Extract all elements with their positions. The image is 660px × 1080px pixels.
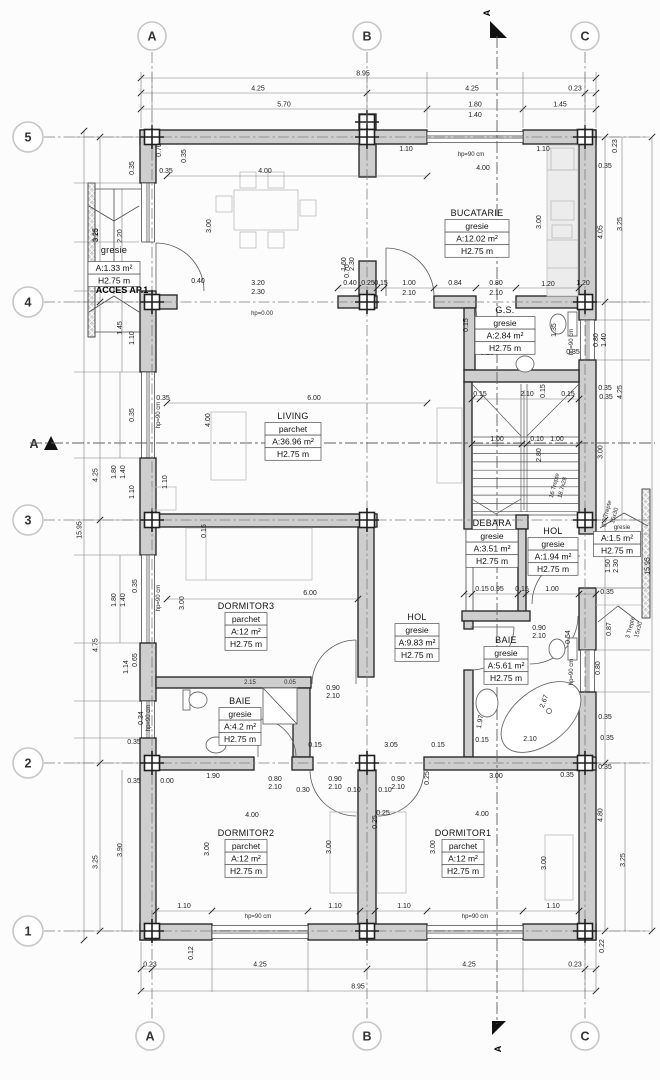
axis 5 horizontal — [44, 136, 648, 138]
wall stub axis B top — [359, 144, 376, 177]
wardrobe dorm1 — [545, 835, 573, 900]
svg-text:0.10: 0.10 — [347, 787, 361, 794]
window left 2 (hp=90) — [142, 372, 155, 458]
svg-text:4.25: 4.25 — [462, 962, 476, 969]
dim stair top row — [472, 398, 579, 400]
svg-text:0.90: 0.90 — [326, 685, 340, 692]
svg-text:1.00: 1.00 — [550, 436, 564, 443]
svg-text:0.05: 0.05 — [284, 680, 296, 686]
column A1 — [145, 924, 160, 939]
svg-text:4.25: 4.25 — [617, 385, 624, 399]
svg-text:1.00: 1.00 — [490, 436, 504, 443]
svg-text:1.80: 1.80 — [111, 465, 118, 479]
grid bubble A bottom — [136, 1022, 164, 1050]
dining chair — [240, 232, 256, 248]
svg-text:0.35: 0.35 — [129, 161, 136, 175]
grid bubble B top — [353, 22, 381, 50]
grid bubble 2 — [13, 748, 43, 778]
wall B dorm3/hol — [358, 527, 374, 677]
dim debara row — [464, 593, 596, 595]
wall axis3 living/dorm3 — [156, 514, 377, 527]
door entrance AP.1 — [155, 243, 157, 291]
svg-text:H2.75 m: H2.75 m — [489, 343, 521, 353]
svg-text:8.95: 8.95 — [351, 984, 365, 991]
svg-text:0.90: 0.90 — [532, 625, 546, 632]
svg-text:0.80: 0.80 — [593, 333, 600, 347]
svg-text:A:12.02 m²: A:12.02 m² — [456, 234, 498, 244]
svg-text:4.25: 4.25 — [251, 86, 265, 93]
svg-text:2: 2 — [25, 757, 32, 771]
svg-text:4.25: 4.25 — [93, 468, 100, 482]
svg-text:1.40: 1.40 — [468, 112, 482, 119]
door dormitor1 — [378, 770, 424, 816]
door baie1 from dorm2 — [257, 719, 259, 757]
bed dorm1 — [377, 812, 406, 893]
tv unit living — [437, 408, 462, 483]
svg-text:A:36.96 m²: A:36.96 m² — [272, 437, 314, 447]
dim bottom 8.95 — [141, 990, 596, 992]
wall right segment 1 — [579, 130, 596, 320]
column B5a — [360, 115, 375, 130]
svg-text:4: 4 — [25, 296, 32, 310]
column B4 — [360, 295, 375, 310]
landing chevron bottom — [598, 606, 618, 622]
dining chair — [300, 200, 316, 216]
svg-text:3.00: 3.00 — [598, 445, 605, 459]
column B1 — [360, 924, 375, 939]
svg-text:BAIE: BAIE — [495, 635, 517, 645]
svg-text:0.40: 0.40 — [191, 278, 205, 285]
svg-text:0.15: 0.15 — [561, 391, 575, 398]
baie1 wc — [183, 690, 190, 710]
svg-text:0.80: 0.80 — [268, 776, 282, 783]
svg-text:A:9.83 m²: A:9.83 m² — [399, 638, 436, 648]
baie2 sink — [476, 689, 498, 717]
svg-text:1.10: 1.10 — [129, 485, 136, 499]
dim top 5.70 row — [141, 108, 596, 110]
wall axis4 GS right — [516, 296, 579, 308]
svg-text:BUCATARIE: BUCATARIE — [451, 208, 504, 218]
dim bottom windows row — [156, 910, 579, 912]
svg-text:0.15: 0.15 — [540, 384, 547, 398]
svg-text:0.35: 0.35 — [599, 394, 613, 401]
svg-text:4.75: 4.75 — [93, 638, 100, 652]
column B2 — [360, 756, 375, 771]
wall top right segment — [523, 130, 596, 144]
svg-text:15.95: 15.95 — [645, 557, 652, 575]
svg-text:2.10: 2.10 — [328, 784, 342, 791]
svg-text:1.90: 1.90 — [206, 773, 220, 780]
baie2 tub — [488, 667, 594, 766]
svg-text:HOL: HOL — [543, 526, 562, 536]
svg-text:15.95: 15.95 — [77, 521, 84, 539]
svg-text:1.35: 1.35 — [551, 323, 558, 337]
svg-text:A:4.2 m²: A:4.2 m² — [224, 722, 256, 732]
column C4 — [578, 295, 593, 310]
wall axis2 right — [424, 757, 596, 770]
window left 1 — [142, 183, 155, 242]
svg-text:A: A — [493, 1045, 503, 1052]
svg-text:0.15: 0.15 — [473, 391, 487, 398]
wall debara/hol — [518, 529, 526, 617]
svg-text:0.35: 0.35 — [159, 168, 173, 175]
wall GS left — [464, 308, 475, 370]
svg-text:1.50: 1.50 — [605, 559, 612, 573]
svg-text:0.35: 0.35 — [181, 149, 188, 163]
svg-text:3.25: 3.25 — [620, 853, 627, 867]
svg-text:0.80: 0.80 — [489, 280, 503, 287]
GS sink — [516, 356, 534, 372]
svg-text:H2.75 m: H2.75 m — [537, 564, 569, 574]
wall axis2 left — [156, 757, 254, 770]
wall left segment 1 — [140, 130, 156, 183]
dim top 8.95 — [141, 77, 596, 79]
dim stair treads row — [472, 443, 579, 445]
svg-text:A:1.33 m²: A:1.33 m² — [96, 263, 133, 273]
door exterior rear — [532, 556, 580, 604]
wall baie1 top — [156, 677, 311, 688]
svg-text:LIVING: LIVING — [277, 411, 308, 421]
svg-text:DORMITOR1: DORMITOR1 — [435, 828, 492, 838]
svg-text:1.80: 1.80 — [468, 102, 482, 109]
porch outline — [95, 188, 141, 190]
window left 3 (hp=90) — [142, 555, 155, 643]
svg-text:0.23: 0.23 — [143, 962, 157, 969]
landing lines — [596, 533, 642, 535]
svg-text:parchet: parchet — [279, 424, 308, 434]
svg-text:B: B — [362, 30, 371, 44]
axis B vertical — [366, 52, 368, 1019]
svg-text:A:2.84 m²: A:2.84 m² — [487, 331, 524, 341]
svg-text:4.00: 4.00 — [475, 811, 489, 818]
svg-text:hp=0.00: hp=0.00 — [251, 311, 274, 317]
svg-text:3: 3 — [25, 514, 32, 528]
witness lines left — [74, 136, 139, 138]
svg-text:4.00: 4.00 — [258, 168, 272, 175]
svg-text:0.35: 0.35 — [129, 408, 136, 422]
svg-text:C: C — [580, 30, 589, 44]
baie1 shower — [263, 688, 297, 724]
svg-text:3.00: 3.00 — [206, 219, 213, 233]
svg-text:0.35: 0.35 — [598, 385, 612, 392]
wall baie2 top — [462, 611, 530, 621]
svg-text:3.25: 3.25 — [93, 228, 100, 242]
svg-text:hp=90 cm: hp=90 cm — [569, 659, 575, 686]
svg-text:0.15: 0.15 — [463, 318, 470, 332]
svg-text:3.00: 3.00 — [326, 840, 333, 854]
svg-text:0.35: 0.35 — [600, 735, 614, 742]
svg-text:2.10: 2.10 — [520, 391, 534, 398]
wall left segment 5 — [140, 738, 156, 940]
grid bubble A top — [138, 22, 166, 50]
svg-text:0.84: 0.84 — [448, 280, 462, 287]
svg-text:gresie: gresie — [465, 221, 488, 231]
svg-text:0.10: 0.10 — [378, 787, 392, 794]
column C5 — [578, 130, 593, 145]
svg-text:A: A — [147, 30, 156, 44]
svg-text:1.10: 1.10 — [162, 475, 169, 489]
stair treads — [472, 436, 579, 438]
svg-text:BAIE: BAIE — [229, 696, 251, 706]
column C2 — [578, 756, 593, 771]
svg-text:2.10: 2.10 — [489, 290, 503, 297]
svg-text:0.10: 0.10 — [530, 436, 544, 443]
svg-text:8.95: 8.95 — [356, 71, 370, 78]
wall left segment 2 — [140, 291, 156, 372]
svg-text:H2.75 m: H2.75 m — [447, 866, 479, 876]
witness lines right — [597, 136, 650, 138]
svg-text:C: C — [580, 1030, 589, 1044]
svg-text:0.15: 0.15 — [201, 524, 208, 538]
svg-text:0.15: 0.15 — [475, 586, 489, 593]
svg-text:1.20: 1.20 — [576, 280, 590, 287]
svg-text:H2.75 m: H2.75 m — [277, 449, 309, 459]
svg-text:3.05: 3.05 — [384, 742, 398, 749]
svg-text:3.00: 3.00 — [430, 840, 437, 854]
svg-text:B: B — [362, 1030, 371, 1044]
column C1 — [578, 924, 593, 939]
bed dorm2 — [330, 812, 357, 893]
wall right segment 2 — [579, 360, 596, 534]
column C3 — [578, 513, 593, 528]
svg-text:H2.75 m: H2.75 m — [461, 246, 493, 256]
porch hatched edge — [88, 183, 95, 337]
svg-text:DORMITOR3: DORMITOR3 — [218, 601, 275, 611]
svg-text:1.40: 1.40 — [601, 333, 608, 347]
svg-text:3.00: 3.00 — [541, 856, 548, 870]
window bottom left (hp=90) — [212, 926, 308, 939]
svg-text:1.10: 1.10 — [536, 146, 550, 153]
svg-text:4.25: 4.25 — [253, 962, 267, 969]
svg-text:2.20: 2.20 — [117, 229, 124, 243]
svg-text:H2.75 m: H2.75 m — [230, 639, 262, 649]
section marker A bottom — [492, 1021, 506, 1035]
svg-text:1.80: 1.80 — [111, 593, 118, 607]
svg-text:G.S.: G.S. — [495, 305, 514, 315]
svg-text:0.00: 0.00 — [160, 778, 174, 785]
wall axis4 left of B — [338, 296, 377, 308]
svg-text:0.80: 0.80 — [595, 661, 602, 675]
wall bottom segment 2 — [308, 924, 427, 940]
dim top 4.25 row — [141, 92, 596, 94]
svg-text:0.15: 0.15 — [431, 742, 445, 749]
axis 3 horizontal — [44, 519, 648, 521]
svg-text:hp=90 cm: hp=90 cm — [245, 914, 272, 920]
dim left overall — [83, 131, 85, 940]
svg-text:4.00: 4.00 — [245, 812, 259, 819]
axis C vertical — [584, 52, 586, 1019]
column A2 — [145, 756, 160, 771]
svg-text:H2.75 m: H2.75 m — [224, 734, 256, 744]
svg-text:1.14: 1.14 — [123, 660, 130, 674]
svg-text:0.87: 0.87 — [606, 622, 613, 636]
svg-text:A:3.51 m²: A:3.51 m² — [474, 544, 511, 554]
axis 2 horizontal — [44, 762, 648, 764]
dim dining 4.00 — [167, 175, 427, 177]
svg-text:DORMITOR2: DORMITOR2 — [218, 828, 275, 838]
svg-text:A:12 m²: A:12 m² — [448, 854, 478, 864]
svg-text:A:12 m²: A:12 m² — [231, 627, 261, 637]
svg-text:1.10: 1.10 — [546, 903, 560, 910]
wall top left segment — [140, 130, 427, 144]
svg-text:3.00: 3.00 — [489, 773, 503, 780]
grid bubble 4 — [13, 287, 43, 317]
margin dim lines left — [121, 189, 123, 372]
wall axis4 kitchen/GS — [434, 296, 476, 308]
grid bubble 5 — [13, 122, 43, 152]
witness lines bottom — [140, 942, 142, 992]
svg-text:1.10: 1.10 — [328, 903, 342, 910]
wall bottom segment 3 — [523, 924, 596, 940]
svg-text:0.22: 0.22 — [599, 939, 606, 953]
door GS — [476, 308, 516, 348]
svg-text:3.20: 3.20 — [251, 280, 265, 287]
svg-text:0.90: 0.90 — [391, 776, 405, 783]
svg-text:HOL: HOL — [407, 612, 426, 622]
kitchen appliances — [551, 148, 574, 170]
window right 1 (hp=90) — [581, 320, 595, 360]
svg-text:H2.75 m: H2.75 m — [601, 546, 633, 556]
wall GS / stair separation — [464, 370, 579, 382]
svg-text:0.95: 0.95 — [490, 586, 504, 593]
grid bubble C bottom — [571, 1022, 599, 1050]
door dormitor3 — [355, 640, 357, 684]
svg-text:4.00: 4.00 — [476, 165, 490, 172]
section line A-A vertical — [496, 36, 498, 1024]
sofa living — [211, 412, 246, 480]
svg-text:A:5.61 m²: A:5.61 m² — [488, 661, 525, 671]
svg-text:2.10: 2.10 — [402, 290, 416, 297]
svg-text:0.70: 0.70 — [344, 264, 351, 278]
svg-text:1.20: 1.20 — [541, 281, 555, 288]
svg-text:0.35: 0.35 — [598, 163, 612, 170]
axis 1 horizontal — [44, 930, 648, 932]
svg-text:0.25: 0.25 — [361, 280, 375, 287]
dim left col outer — [99, 137, 101, 931]
dim right overall — [651, 137, 653, 931]
svg-text:2.10: 2.10 — [268, 784, 282, 791]
landing chevron top — [600, 513, 624, 528]
svg-text:3.00: 3.00 — [204, 842, 211, 856]
svg-text:6.00: 6.00 — [303, 590, 317, 597]
svg-text:2.80: 2.80 — [536, 448, 543, 462]
svg-text:2.15: 2.15 — [244, 680, 256, 686]
window top (hp=90) — [427, 132, 523, 143]
svg-text:1.40: 1.40 — [120, 593, 127, 607]
svg-text:6.00: 6.00 — [307, 395, 321, 402]
svg-text:4.05: 4.05 — [598, 225, 605, 239]
dining chair — [268, 232, 284, 248]
svg-text:gresie: gresie — [614, 525, 631, 531]
svg-text:0.35: 0.35 — [600, 589, 614, 596]
svg-text:0.23: 0.23 — [612, 139, 619, 153]
bed dorm3 — [186, 528, 312, 580]
svg-text:3.25: 3.25 — [93, 855, 100, 869]
axis A vertical — [151, 52, 153, 1019]
svg-text:0.65: 0.65 — [132, 653, 139, 667]
margin dim lines right — [621, 137, 623, 520]
svg-text:parchet: parchet — [232, 841, 261, 851]
svg-text:A:1.94 m²: A:1.94 m² — [535, 552, 572, 562]
svg-text:1.45: 1.45 — [117, 321, 124, 335]
stair lower chevron — [472, 499, 496, 514]
stair upper diagonals — [472, 384, 521, 436]
section line A-A horizontal — [30, 442, 655, 444]
wall left segment 3 — [140, 458, 156, 555]
wall baie1 right — [293, 688, 310, 757]
svg-text:2.30: 2.30 — [251, 289, 265, 296]
dining table — [234, 190, 298, 230]
column B3 — [360, 513, 375, 528]
svg-text:0.35: 0.35 — [598, 764, 612, 771]
svg-text:A: A — [29, 437, 38, 451]
column A4 — [145, 295, 160, 310]
svg-text:0.35: 0.35 — [132, 579, 139, 593]
grid bubble B bottom — [353, 1022, 381, 1050]
svg-text:A:12 m²: A:12 m² — [231, 854, 261, 864]
svg-text:parchet: parchet — [449, 841, 478, 851]
porch center line — [113, 189, 115, 294]
porch chevron down — [89, 206, 114, 221]
svg-text:0.12: 0.12 — [188, 946, 195, 960]
svg-text:A: A — [482, 9, 492, 16]
svg-text:gresie: gresie — [228, 709, 251, 719]
svg-text:0.35: 0.35 — [127, 739, 141, 746]
svg-text:2.30: 2.30 — [613, 559, 620, 573]
door baie2 second leaf — [530, 616, 578, 664]
svg-text:hp=90 cm: hp=90 cm — [156, 402, 162, 429]
svg-text:3.25: 3.25 — [617, 217, 624, 231]
window bottom right (hp=90) — [427, 926, 523, 939]
svg-text:2.10: 2.10 — [326, 693, 340, 700]
GS wc — [568, 312, 577, 336]
wall axis2 baie1 block — [292, 757, 313, 770]
door dormitor2 — [310, 770, 356, 816]
svg-text:parchet: parchet — [232, 614, 261, 624]
wall left segment 4 — [140, 643, 156, 701]
wall stair left — [464, 382, 472, 529]
svg-text:3.90: 3.90 — [117, 843, 124, 857]
svg-text:gresie: gresie — [405, 625, 428, 635]
svg-text:1.00: 1.00 — [545, 586, 559, 593]
svg-text:hp=90 cm: hp=90 cm — [156, 585, 162, 612]
svg-text:H2.75 m: H2.75 m — [490, 673, 522, 683]
wall right segment 4 — [579, 692, 596, 940]
porch chevron up — [89, 296, 114, 312]
svg-text:0.15: 0.15 — [515, 586, 529, 593]
grid bubble 3 — [13, 505, 43, 535]
svg-text:H2.75 m: H2.75 m — [476, 556, 508, 566]
svg-text:hp=90 cm: hp=90 cm — [458, 152, 485, 158]
svg-text:0.54: 0.54 — [565, 630, 572, 644]
svg-text:0.15: 0.15 — [475, 737, 489, 744]
svg-text:A: A — [145, 1030, 154, 1044]
svg-text:0.35: 0.35 — [127, 778, 141, 785]
svg-text:1.10: 1.10 — [129, 331, 136, 345]
svg-text:0.70: 0.70 — [156, 143, 163, 157]
wall B5 column block — [359, 114, 376, 130]
svg-text:gresie: gresie — [541, 539, 564, 549]
kitchen counter — [547, 145, 578, 296]
svg-text:hp=90 cm: hp=90 cm — [146, 705, 152, 732]
dining chair — [268, 172, 284, 188]
axis 4 horizontal — [44, 301, 648, 303]
svg-text:hp=90 cm: hp=90 cm — [462, 914, 489, 920]
svg-text:2.10: 2.10 — [523, 736, 537, 743]
svg-text:0.35: 0.35 — [598, 714, 612, 721]
landing hatched edge — [642, 489, 650, 618]
svg-text:5.70: 5.70 — [277, 102, 291, 109]
